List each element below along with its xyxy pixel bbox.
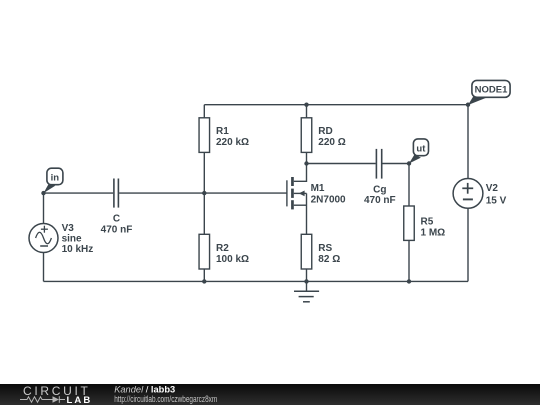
wire V2 bottom lead — [467, 208, 469, 281]
wire R2 top lead — [203, 193, 205, 234]
svg-text:220 kΩ: 220 kΩ — [216, 137, 249, 148]
wire RD bottom lead to drain node — [306, 152, 308, 163]
svg-text:1 MΩ: 1 MΩ — [421, 228, 446, 239]
resistor R5 — [404, 206, 415, 240]
wire capacitor Cg to node ut — [382, 163, 409, 165]
svg-text:15 V: 15 V — [486, 195, 507, 206]
svg-text:sine: sine — [62, 234, 82, 245]
svg-text:220 Ω: 220 Ω — [318, 137, 345, 148]
node flag NODE1 — [468, 80, 510, 105]
svg-text:LAB: LAB — [67, 395, 93, 405]
wire R1 bottom lead — [203, 152, 205, 193]
capacitor C — [114, 179, 119, 208]
body pin with arrow — [294, 192, 307, 194]
svg-text:http://circuitlab.com/czwbegar: http://circuitlab.com/czwbegarcz8xm — [114, 394, 217, 404]
junction dot gate divider node — [202, 191, 206, 195]
V2 minus sign — [463, 198, 473, 200]
svg-text:R2: R2 — [216, 243, 229, 254]
channel bar body segment — [291, 189, 294, 198]
svg-text:R1: R1 — [216, 126, 229, 137]
svg-text:RD: RD — [318, 126, 332, 137]
gate lead bar — [286, 180, 288, 206]
V2 plus sign — [462, 187, 473, 189]
wire bottom rail — [44, 280, 469, 282]
CircuitLab logo schematic line with resistor and diode — [20, 396, 65, 403]
source vertical to RS — [306, 193, 308, 234]
source pin — [294, 204, 307, 206]
wire V2 top lead — [467, 105, 469, 179]
wire R2 bottom lead — [203, 269, 205, 281]
wire R5 bottom lead — [408, 240, 410, 281]
svg-text:C: C — [113, 214, 120, 225]
svg-text:10 kHz: 10 kHz — [62, 244, 94, 255]
junction dot node ut — [407, 161, 411, 165]
junction dot drain node — [304, 161, 308, 165]
footer bar — [0, 384, 540, 405]
wire RD top lead — [306, 105, 308, 118]
node flag ut — [409, 139, 429, 164]
resistor R2 — [199, 234, 210, 269]
wire node ut to R5 — [408, 164, 410, 207]
wire V3 bottom lead — [43, 253, 45, 282]
junction dot NODE1 corner — [466, 103, 470, 107]
resistor RS — [301, 234, 312, 269]
wire top rail — [204, 104, 468, 106]
node flag in — [44, 168, 63, 193]
svg-text:470 nF: 470 nF — [101, 225, 133, 236]
resistor RD — [301, 118, 312, 153]
wire capacitor C to gate — [119, 192, 287, 194]
wire input node to capacitor C — [44, 192, 114, 194]
svg-text:82 Ω: 82 Ω — [318, 254, 340, 265]
junction dot RS bottom — [304, 279, 308, 283]
wire V3 top lead — [43, 193, 45, 223]
wire drain node to capacitor Cg — [307, 163, 376, 165]
ground — [294, 291, 319, 302]
junction dot top rail at RD — [304, 103, 308, 107]
svg-text:in: in — [51, 172, 60, 183]
transistor M1 (NMOS 2N7000) — [287, 164, 307, 235]
junction dot R5 bottom — [407, 279, 411, 283]
svg-text:RS: RS — [318, 243, 332, 254]
channel bar source segment — [291, 200, 294, 209]
junction dot input node in — [41, 191, 45, 195]
V3 plus sign — [41, 228, 48, 230]
svg-text:M1: M1 — [311, 183, 325, 194]
resistor R1 — [199, 118, 210, 153]
svg-text:V2: V2 — [486, 183, 499, 194]
drain pin — [294, 164, 307, 182]
svg-text:R5: R5 — [421, 217, 434, 228]
svg-text:2N7000: 2N7000 — [311, 195, 346, 206]
junction dot R2 bottom — [202, 279, 206, 283]
wire RS bottom lead — [306, 269, 308, 281]
svg-text:NODE1: NODE1 — [475, 85, 508, 96]
svg-text:470 nF: 470 nF — [364, 195, 396, 206]
svg-text:Cg: Cg — [373, 184, 386, 195]
wire R1 top lead — [203, 105, 205, 118]
capacitor Cg — [376, 149, 381, 179]
voltage source V3 (sine) — [29, 224, 58, 253]
V3 minus sign — [40, 245, 48, 247]
svg-text:ut: ut — [416, 143, 426, 154]
channel bar drain segment — [291, 177, 294, 186]
wire ground stub — [306, 281, 308, 291]
voltage source V2 — [453, 179, 483, 209]
svg-text:100 kΩ: 100 kΩ — [216, 254, 249, 265]
